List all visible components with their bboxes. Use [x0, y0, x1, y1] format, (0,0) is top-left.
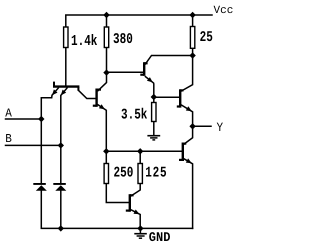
svg-text:Vcc: Vcc — [214, 5, 234, 17]
svg-text:125: 125 — [145, 166, 167, 182]
svg-text:GND: GND — [149, 230, 171, 245]
svg-text:380: 380 — [113, 32, 133, 48]
svg-text:Y: Y — [217, 122, 224, 136]
svg-text:A: A — [5, 108, 12, 121]
svg-text:1.4k: 1.4k — [71, 34, 98, 51]
svg-text:B: B — [5, 133, 12, 146]
svg-text:3.5k: 3.5k — [121, 108, 148, 124]
svg-text:25: 25 — [200, 30, 214, 46]
svg-text:250: 250 — [114, 166, 134, 182]
